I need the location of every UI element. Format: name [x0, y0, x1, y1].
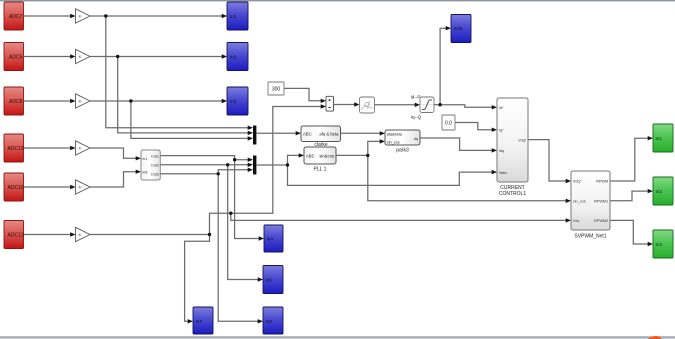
- subsystem U1 measurement: [141, 150, 160, 180]
- wire node A4 down to In7 scope: [185, 235, 210, 322]
- In5 scope block blue: [263, 266, 283, 294]
- svg-text:ABC: ABC: [306, 153, 315, 158]
- svg-text:Vdc: Vdc: [573, 219, 580, 223]
- svg-text:In5: In5: [266, 277, 273, 282]
- wire subsystem Out2 to mux M2 input2: [160, 164, 248, 166]
- wire PLL output to node E: [336, 154, 368, 156]
- svg-text:ADC5: ADC5: [9, 54, 23, 60]
- In28 scope block blue: [451, 15, 471, 43]
- svg-text:PLL 1: PLL 1: [314, 167, 327, 173]
- svg-text:ADC16: ADC16: [8, 185, 24, 191]
- In6 scope block blue: [263, 307, 283, 334]
- In1 scope block blue: [227, 2, 248, 30]
- svg-text:afa & beta: afa & beta: [319, 132, 339, 137]
- junction node A3: [129, 99, 132, 102]
- svg-text:-K-: -K-: [78, 233, 84, 237]
- svg-text:Out3: Out3: [151, 173, 159, 177]
- wire node B down to SVPWM Vdc input: [231, 213, 567, 220]
- svg-text:sin_cos: sin_cos: [573, 200, 586, 204]
- CURRENT CONTROL1 block: [497, 98, 528, 197]
- wire gain K3 to In3 scope: [90, 100, 223, 102]
- PLL 1 block: [304, 142, 336, 172]
- wire constant 300 to sum plus input: [284, 88, 322, 100]
- wire SVPWM RPWM2 output to green In3: [610, 220, 649, 244]
- wire park3 dq output to CURRENT CONTROL1 Idq input: [420, 138, 493, 150]
- wire subsystem Out3 to mux M2 input3: [160, 170, 248, 174]
- svg-text:In3: In3: [230, 99, 237, 104]
- wire node A1 down to mux M1 input1: [106, 16, 249, 128]
- top window edge: [0, 0, 675, 1]
- ADC5 input block: [4, 43, 24, 71]
- wire SVPWM RPWM1 output to green In2: [610, 191, 649, 201]
- svg-text:sin_cos: sin_cos: [387, 140, 400, 144]
- wire node F up to In28 scope: [440, 28, 446, 105]
- svg-text:in8: in8: [142, 170, 147, 174]
- svg-text:Id*: Id*: [499, 106, 504, 110]
- ADC7 input block: [4, 2, 24, 30]
- wire SVPWM RPWM output to green In1: [610, 138, 649, 181]
- wire node A4 up to node B and to sum minus input: [210, 107, 322, 235]
- ADC12 input block: [4, 134, 24, 162]
- arrowheads into blocks: [70, 14, 75, 18]
- wire saturation to CURRENT CONTROL1 Id* input: [434, 105, 493, 108]
- svg-text:Vdq*: Vdq*: [518, 138, 527, 142]
- svg-text:in1: in1: [142, 157, 147, 161]
- In3 scope block blue: [227, 87, 248, 115]
- orange cursor bottom right: [648, 336, 662, 339]
- svg-text:In4: In4: [267, 236, 274, 241]
- svg-text:clarke: clarke: [314, 142, 328, 148]
- wire node E up to park3 sin_cos input: [368, 141, 381, 155]
- svg-text:-K-: -K-: [78, 55, 84, 59]
- junction node F: [438, 103, 441, 106]
- wire mux M2 output to node D: [257, 164, 288, 166]
- svg-text:In6: In6: [266, 319, 273, 324]
- wire clarke to park3 afa&beta input: [341, 132, 381, 134]
- wire gain K5 to subsystem in8: [90, 172, 137, 187]
- svg-text:In28: In28: [454, 26, 463, 31]
- gain K3: [76, 94, 91, 108]
- saturation block: [420, 97, 434, 113]
- svg-text:In7: In7: [196, 319, 203, 324]
- wire ADC12 to gain K4: [24, 147, 72, 149]
- svg-text:Iq*: Iq*: [499, 128, 504, 132]
- ADC13 input block: [4, 221, 24, 249]
- junction node E: [366, 154, 369, 157]
- svg-text:Idq: Idq: [499, 149, 504, 153]
- svg-text:0.0: 0.0: [445, 121, 452, 127]
- In4 scope block blue: [264, 225, 283, 252]
- green In3 output block: [653, 230, 673, 258]
- wire mux M1 output to clarke: [257, 132, 297, 134]
- mux M1: [253, 126, 256, 145]
- junction node B: [229, 212, 232, 215]
- ADC8 input block: [4, 87, 24, 115]
- gain K2: [76, 49, 91, 63]
- gain K4: [76, 141, 91, 155]
- svg-text:-K-: -K-: [78, 100, 84, 104]
- svg-text:In2: In2: [230, 54, 237, 59]
- wire node D up to PLL input: [288, 155, 300, 165]
- wire ADC7 to gain K1: [24, 15, 72, 17]
- svg-text:RPWM2: RPWM2: [594, 219, 608, 223]
- svg-text:CONTROL1: CONTROL1: [499, 191, 526, 197]
- svg-text:afa&beta: afa&beta: [387, 132, 403, 136]
- wire ADC5 to gain K2: [24, 56, 72, 58]
- svg-text:Iq--Q: Iq--Q: [411, 115, 422, 120]
- svg-text:Vabc: Vabc: [499, 171, 507, 175]
- wire node C2 down to In5 scope: [228, 165, 259, 280]
- svg-text:Out2: Out2: [151, 164, 159, 168]
- svg-text:In1: In1: [656, 136, 663, 141]
- svg-text:ADC7: ADC7: [9, 14, 23, 20]
- gain K5: [76, 180, 91, 194]
- wire sum to PI block: [334, 104, 355, 106]
- junction node A4: [208, 233, 211, 236]
- junction node C1: [233, 158, 236, 161]
- wire gain K1 to In1 scope: [90, 15, 223, 17]
- SVPWM_Net1 block: [571, 171, 610, 240]
- svg-text:sin&cos: sin&cos: [319, 153, 334, 158]
- ADC16 input block: [4, 173, 24, 201]
- wire node A3 down to mux M1 input3: [131, 101, 249, 138]
- wire node D down to CURRENT CONTROL1 Vabc input: [288, 165, 493, 185]
- sum S1: [326, 96, 334, 111]
- svg-text:park3: park3: [396, 147, 409, 153]
- wire gain K2 to In2 scope: [90, 56, 223, 58]
- svg-text:300: 300: [272, 86, 281, 92]
- junction node A1: [104, 14, 107, 17]
- wire ADC13 to gain K6: [24, 234, 72, 236]
- svg-text:Vdq*: Vdq*: [573, 180, 582, 184]
- park3 block: [385, 130, 420, 153]
- wire gain K4 to subsystem in1: [90, 148, 137, 158]
- wire node E down to SVPWM sin_cos input: [368, 155, 567, 200]
- svg-text:-K-: -K-: [78, 186, 84, 190]
- In7 scope block blue: [193, 307, 213, 334]
- green In1 output block: [653, 124, 673, 152]
- svg-text:-K-: -K-: [78, 15, 84, 19]
- green In2 output block: [653, 177, 673, 205]
- junction node C2: [226, 163, 229, 166]
- wire gain K6 to node A4: [90, 234, 210, 236]
- junction node A2: [116, 55, 119, 58]
- junction node C3: [217, 172, 220, 175]
- wire ADC8 to gain K3: [24, 100, 72, 102]
- PI controller block U2: [360, 97, 375, 113]
- wire PI block to saturation: [375, 104, 416, 106]
- wire node A2 down to mux M1 input2: [118, 57, 249, 133]
- svg-text:ADC13: ADC13: [8, 232, 24, 238]
- svg-text:In1: In1: [230, 14, 237, 19]
- wire node C3 down to In6 scope: [218, 174, 258, 321]
- constant 0.0: [442, 115, 455, 130]
- svg-text:Id--P: Id--P: [411, 95, 421, 100]
- svg-text:RPWM1: RPWM1: [594, 200, 608, 204]
- svg-text:-K-: -K-: [78, 147, 84, 151]
- gain K6: [76, 227, 91, 241]
- svg-text:In3: In3: [656, 242, 663, 247]
- svg-text:SVPWM_Net1: SVPWM_Net1: [574, 234, 606, 240]
- clarke block: [301, 126, 341, 142]
- mux M2: [253, 156, 256, 175]
- In2 scope block blue: [227, 43, 248, 71]
- wire node C1 down to In4 scope: [235, 160, 260, 239]
- bottom scrollbar: [0, 336, 675, 338]
- svg-text:In2: In2: [656, 189, 663, 194]
- svg-text:Out1: Out1: [151, 154, 159, 158]
- svg-text:RPWM: RPWM: [596, 180, 608, 184]
- gain K1: [76, 9, 91, 23]
- svg-text:ADC8: ADC8: [9, 99, 23, 105]
- wire CURRENT CONTROL1 Vdq* output to SVPWM Vdq* input: [528, 140, 567, 181]
- junction node D: [286, 163, 289, 166]
- wire ADC16 to gain K5: [24, 186, 72, 188]
- svg-text:ADC12: ADC12: [8, 146, 24, 152]
- wire constant 0.0 to CURRENT CONTROL1 Iq* input: [455, 123, 493, 130]
- svg-text:dq: dq: [414, 137, 418, 141]
- svg-text:ABC: ABC: [303, 132, 312, 137]
- constant 300: [268, 82, 284, 95]
- wire subsystem Out1 to mux M2 input1: [160, 156, 248, 160]
